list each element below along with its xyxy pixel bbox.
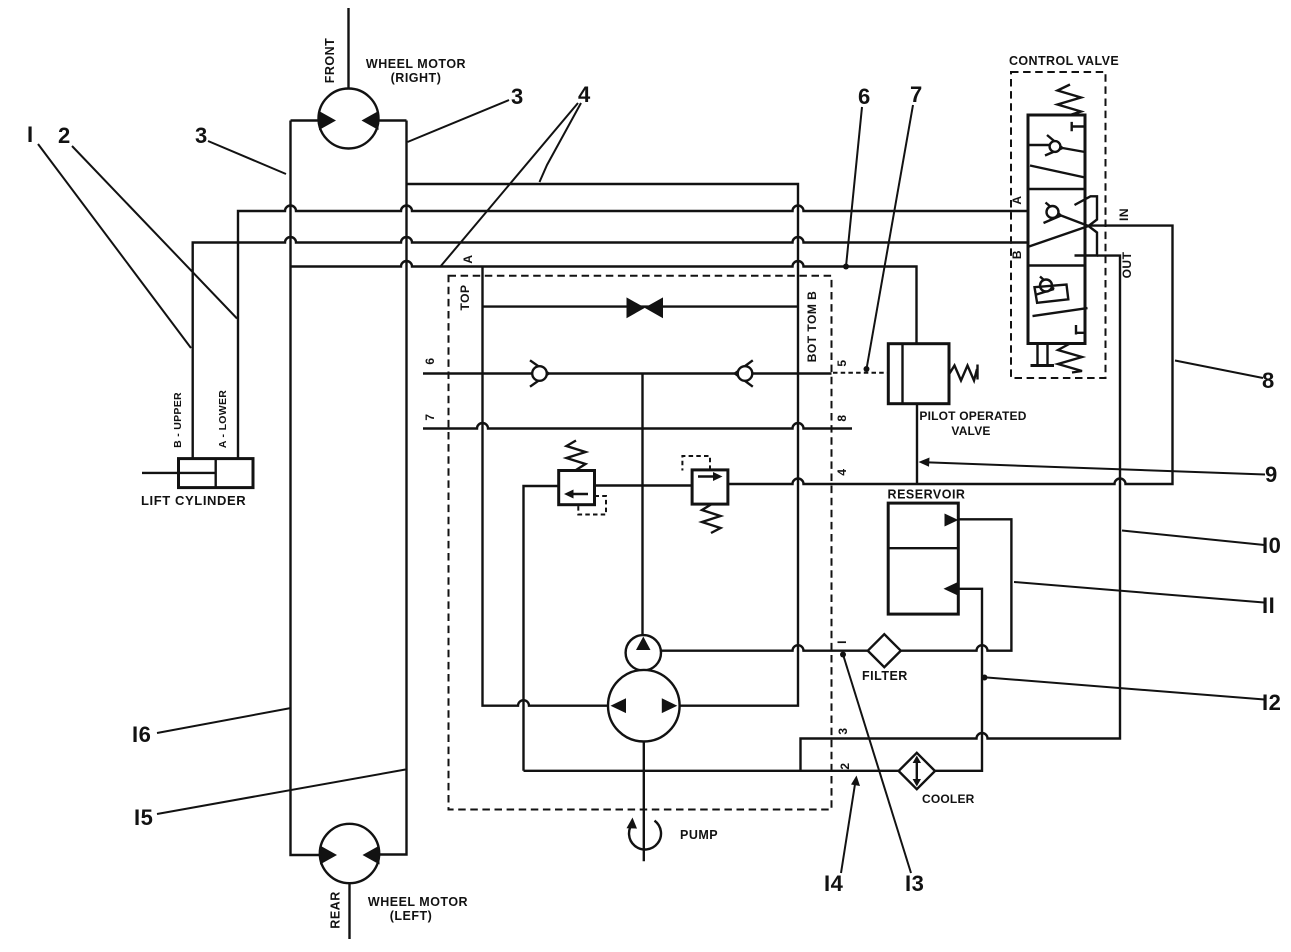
pilot operated valve spring — [950, 365, 978, 381]
svg-text:I: I — [27, 122, 34, 147]
wire line 7 to port 8 — [423, 423, 852, 428]
cooler internal double arrow — [916, 760, 918, 782]
callout 14 leader with arrow — [841, 781, 856, 873]
svg-text:II: II — [1262, 593, 1275, 618]
svg-text:I3: I3 — [905, 871, 924, 896]
svg-text:3: 3 — [836, 727, 850, 734]
callout 10 leader — [1122, 531, 1265, 546]
wheel motor right arrowheads — [319, 111, 379, 130]
relief valve left spring — [567, 441, 586, 471]
svg-text:6: 6 — [858, 84, 871, 109]
svg-text:IN: IN — [1117, 208, 1131, 221]
svg-text:6: 6 — [423, 357, 437, 364]
control valve bottom section tilted box — [1035, 285, 1069, 303]
svg-text:(LEFT): (LEFT) — [390, 909, 433, 923]
callout 3 right leader — [408, 100, 510, 142]
svg-text:8: 8 — [1262, 368, 1275, 393]
control valve bottom section diagonal — [1033, 308, 1088, 316]
svg-text:3: 3 — [195, 123, 208, 148]
wire between relief valves through center line — [595, 484, 693, 486]
svg-text:REAR: REAR — [329, 891, 343, 928]
wheel motor left arrowheads — [320, 846, 380, 865]
control valve legs and foot — [1038, 344, 1048, 365]
callout 12 leader with dot — [987, 678, 1265, 700]
callout 9 leader with arrow — [925, 462, 1265, 474]
svg-text:CONTROL VALVE: CONTROL VALVE — [1009, 54, 1119, 68]
control valve right protrusion block — [1075, 196, 1098, 255]
reservoir top arrow out — [945, 514, 959, 527]
svg-text:B - UPPER: B - UPPER — [172, 392, 184, 448]
pilot operated valve bottom wire to port 4 line — [916, 404, 918, 484]
wire line 3: from line 2 junction to control valve OUT — [801, 256, 1121, 771]
wire line 6 (shuttle line across box) — [423, 372, 832, 374]
wire left relief valve input from vertical riser — [524, 486, 559, 771]
wire filter line: from charge pump to reservoir top port — [661, 519, 1012, 650]
wheel motor left stem — [348, 883, 350, 939]
relief valve right spring — [702, 505, 721, 534]
main dashed enclosure box — [449, 276, 832, 810]
svg-text:WHEEL MOTOR: WHEEL MOTOR — [366, 57, 466, 71]
callout 16 leader — [157, 708, 291, 733]
callout 3 left leader — [208, 141, 286, 174]
pilot operated valve divider — [901, 344, 903, 404]
wheel motor left circle — [320, 824, 379, 883]
svg-text:I2: I2 — [1262, 690, 1281, 715]
gate valve (bowtie) on TOP line — [627, 297, 664, 318]
svg-text:5: 5 — [835, 359, 849, 366]
svg-text:7: 7 — [423, 413, 437, 420]
wheel motor right circle U-motor-R — [319, 89, 379, 149]
svg-text:9: 9 — [1265, 462, 1278, 487]
svg-text:RESERVOIR: RESERVOIR — [888, 488, 966, 502]
callout 2 leader — [72, 146, 237, 319]
control valve bottom section check valve — [1037, 277, 1055, 295]
callout 8 leader — [1175, 361, 1263, 379]
relief valve left arrow — [570, 493, 588, 495]
svg-text:8: 8 — [835, 414, 849, 421]
node junction dot callout 6 endpoint — [843, 264, 849, 270]
charge pump circle — [626, 635, 661, 670]
relief valve left pilot dashed loop — [578, 496, 606, 515]
control valve section dividers — [1028, 189, 1085, 266]
wire port A drop: vertical from bus into pump left port — [483, 267, 609, 706]
lift cylinder body — [179, 459, 254, 488]
lift cylinder piston divider — [214, 459, 216, 488]
wire center drop from line 6 to charge pump — [641, 374, 643, 636]
svg-text:LIFT CYLINDER: LIFT CYLINDER — [141, 493, 246, 508]
wire left long vertical (motor left side) into wheel motor left port — [291, 121, 321, 856]
svg-text:FILTER: FILTER — [862, 669, 908, 683]
control valve top spring — [1058, 85, 1082, 116]
svg-text:7: 7 — [910, 82, 923, 107]
relief valve left box — [559, 471, 595, 505]
control valve top section diagonal — [1030, 166, 1085, 178]
svg-text:A: A — [461, 254, 475, 263]
charge pump arrow up — [636, 637, 651, 651]
svg-text:BOT TOM B: BOT TOM B — [805, 291, 819, 363]
svg-text:B: B — [1010, 250, 1024, 259]
svg-text:A - LOWER: A - LOWER — [217, 390, 229, 448]
reservoir box — [888, 503, 958, 614]
svg-text:I0: I0 — [1262, 533, 1281, 558]
lift cylinder rod — [142, 472, 216, 474]
relief valve right box — [692, 470, 728, 504]
wire TOP line inside box with gate valve — [483, 305, 799, 307]
svg-text:I6: I6 — [132, 722, 151, 747]
wheel motor right box top edges — [291, 119, 407, 121]
wheel motor right stem wire — [347, 8, 349, 89]
relief valve right arrow — [698, 475, 716, 477]
svg-text:4: 4 — [835, 468, 849, 475]
reservoir lower arrow in — [944, 582, 958, 595]
relief valve right pilot dashed loop — [682, 456, 710, 471]
svg-text:FRONT: FRONT — [323, 38, 337, 84]
svg-text:COOLER: COOLER — [922, 792, 975, 806]
check valve left on line 6 — [530, 360, 549, 386]
callout 7 leader with dot — [867, 105, 914, 369]
svg-text:OUT: OUT — [1120, 251, 1134, 278]
callout 15 leader — [157, 770, 406, 815]
reservoir divider — [888, 547, 958, 549]
callout 6 leader — [846, 107, 862, 267]
control valve bottom tank T — [1076, 325, 1085, 335]
wire right long vertical (motor right side) into wheel motor left port — [379, 121, 407, 855]
filter diamond — [868, 634, 901, 667]
svg-text:I5: I5 — [134, 805, 153, 830]
wire line B bus: lift cylinder B vertical + horizontal to control valve port B — [193, 237, 1030, 459]
control valve middle diagonal to B — [1029, 226, 1089, 247]
wire port 4 line from right relief valve to control valve IN vertical — [728, 226, 1173, 484]
callout 1 leader — [38, 144, 191, 348]
wire top return line from motor box to right-side vertical down to pump right port — [407, 184, 799, 706]
pump stem wire — [643, 742, 645, 862]
control valve dashed enclosure — [1011, 72, 1106, 378]
cooler diamond — [899, 753, 935, 789]
main pump arrowheads outward — [611, 698, 678, 713]
svg-text:WHEEL MOTOR: WHEEL MOTOR — [368, 895, 468, 909]
callout 4 leaders — [440, 103, 581, 267]
wire line A bus: lift cylinder A vertical + horizontal to control valve port A — [238, 206, 1029, 459]
svg-text:I4: I4 — [824, 871, 844, 896]
control valve top section check valve — [1028, 135, 1085, 156]
svg-text:A: A — [1010, 195, 1024, 204]
svg-text:PUMP: PUMP — [680, 828, 718, 842]
svg-text:(RIGHT): (RIGHT) — [391, 71, 442, 85]
callout 13 leader with dot — [843, 655, 911, 874]
callout 11 leader — [1014, 582, 1264, 603]
svg-text:TOP: TOP — [458, 285, 472, 311]
wire bus to pilot valve: from left vertical along y=266.5 then down to pilot valve top — [291, 261, 917, 344]
control valve middle check valve — [1044, 203, 1089, 227]
svg-text:2: 2 — [58, 123, 71, 148]
control valve top section tank T — [1072, 122, 1085, 131]
svg-text:VALVE: VALVE — [951, 424, 990, 438]
wire line 2: from riser to cooler then up to reservoir lower port — [524, 589, 983, 771]
control valve body — [1028, 115, 1085, 344]
svg-text:3: 3 — [511, 84, 524, 109]
pilot operated valve box — [888, 344, 949, 404]
svg-text:PILOT OPERATED: PILOT OPERATED — [919, 409, 1026, 423]
wire port 5 dashed link to pilot operated valve — [833, 372, 888, 374]
pump rotation arrow — [629, 821, 661, 850]
check valve right on line 6 — [735, 360, 753, 386]
svg-text:I: I — [835, 640, 849, 644]
main pump circle — [608, 670, 680, 742]
control valve bottom spring — [1058, 344, 1082, 373]
svg-text:2: 2 — [838, 762, 852, 769]
